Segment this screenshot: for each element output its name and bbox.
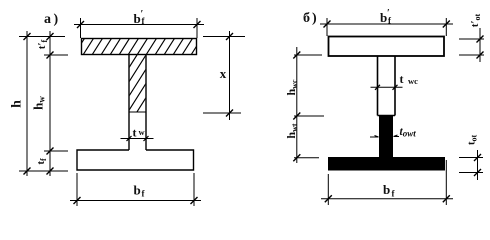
dim tw: label — [133, 126, 146, 140]
dim hwc/hwt: vertical line — [296, 47, 298, 163]
dim b'f b: ticks — [324, 21, 450, 28]
label b) — [303, 11, 319, 26]
web b black part (corroded) — [379, 116, 393, 158]
web b white part — [378, 56, 396, 116]
dim tot: vertical line — [477, 150, 479, 180]
svg-text:towt: towt — [400, 126, 417, 139]
svg-text:h: h — [10, 100, 25, 108]
dim hw ticks — [47, 33, 54, 175]
dim tot: ticks — [474, 154, 481, 176]
dim x: extensions — [203, 37, 245, 114]
svg-text:t: t — [133, 126, 137, 140]
svg-text:wc: wc — [408, 76, 418, 86]
svg-text:f: f — [392, 189, 396, 199]
flange bottom b black — [328, 157, 445, 171]
svg-text:hwt: hwt — [284, 123, 299, 138]
dim hwc/hwt: ticks — [293, 52, 300, 162]
svg-text:t: t — [400, 72, 404, 86]
label hwc — [284, 79, 299, 95]
svg-text:б): б) — [303, 11, 319, 26]
svg-text:b: b — [383, 182, 390, 197]
svg-text:t′f: t′f — [36, 39, 49, 49]
label hwt — [284, 123, 299, 138]
flange top b — [329, 37, 445, 57]
dim hw column line — [49, 31, 51, 176]
dim h a: ticks — [24, 33, 31, 175]
svg-text:hw: hw — [31, 96, 47, 110]
dim bf b: extensions — [328, 160, 446, 205]
label hw — [31, 96, 47, 110]
svg-text:a): a) — [44, 12, 61, 27]
dim twc: label — [400, 72, 419, 86]
neutral axis line in web — [129, 111, 146, 113]
svg-text:b: b — [134, 183, 141, 198]
dim b'f a: label — [134, 9, 146, 26]
dim h a: vertical line — [26, 31, 28, 176]
flange bottom a — [77, 150, 194, 170]
dim tot: extensions — [459, 158, 483, 173]
dim twc: line — [371, 86, 403, 88]
dim tw: line — [121, 138, 154, 140]
svg-text:tf: tf — [35, 158, 48, 165]
dim t'ot: ticks — [477, 36, 484, 59]
label t'ot — [469, 13, 482, 27]
web a — [129, 55, 146, 151]
hatch lines fig a — [36, 36, 239, 115]
dim towt: label — [400, 126, 417, 139]
dim bf b: label — [383, 182, 396, 199]
label tot — [466, 135, 479, 146]
svg-text:x: x — [220, 66, 227, 81]
dim towt: arrows — [370, 136, 399, 139]
flange top a: hatched top flange — [82, 39, 197, 55]
label a) — [44, 12, 61, 27]
svg-text:t′ot: t′ot — [469, 13, 482, 27]
dim bf b: line — [321, 198, 453, 200]
dim b'f b: extensions — [327, 18, 446, 36]
label t'f — [36, 39, 49, 49]
dim tw: ticks — [127, 136, 149, 141]
dim t'ot: extensions — [459, 39, 484, 55]
svg-text:f: f — [142, 189, 146, 199]
dim bf a: line — [70, 200, 201, 202]
dim b'f a: extension lines — [81, 18, 198, 38]
dim bf a: ticks — [74, 197, 198, 204]
dim b'f b: label — [380, 8, 392, 26]
extension lines left a — [19, 37, 68, 172]
dim bf b: ticks — [325, 195, 450, 202]
dim b'f b: line — [320, 23, 453, 25]
svg-text:w: w — [139, 127, 146, 137]
dim hwc/hwt: extensions — [294, 55, 324, 158]
dim bf a: label — [134, 183, 146, 199]
dim x right: vertical line — [229, 31, 231, 120]
dim x: label — [220, 66, 227, 81]
dim x: ticks — [226, 33, 233, 117]
dim h a: label — [10, 100, 25, 108]
svg-text:tot: tot — [466, 135, 479, 146]
dim t'ot: vertical line — [479, 28, 481, 62]
dim b'f a: line — [74, 24, 204, 26]
svg-text:hwc: hwc — [284, 79, 299, 95]
dim b'f a: ticks — [77, 21, 201, 28]
dim bf a: extensions — [77, 173, 194, 206]
dim twc: ticks — [375, 85, 398, 90]
label tf — [35, 158, 48, 165]
